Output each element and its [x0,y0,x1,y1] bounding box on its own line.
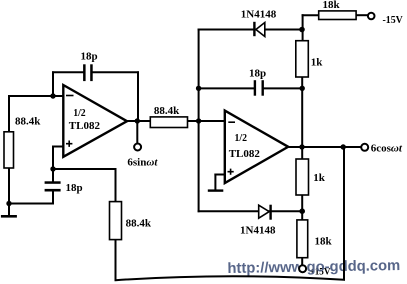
svg-text:18p: 18p [81,50,98,62]
svg-text:TL082: TL082 [229,148,261,160]
svg-text:88.4k: 88.4k [154,105,180,117]
svg-text:88.4k: 88.4k [15,116,41,128]
svg-text:1/2: 1/2 [73,107,86,119]
svg-text:1N4148: 1N4148 [241,9,277,21]
svg-text:88.4k: 88.4k [126,218,152,230]
svg-text:18k: 18k [323,0,341,11]
svg-text:-15V: -15V [383,14,403,26]
svg-text:http://www.go-gddq.com: http://www.go-gddq.com [227,258,400,277]
svg-text:1k: 1k [313,172,326,184]
svg-text:18p: 18p [66,182,83,194]
svg-text:1/2: 1/2 [235,132,248,144]
svg-text:1k: 1k [311,56,324,68]
svg-text:18p: 18p [249,67,266,79]
svg-text:6sinωt: 6sinωt [127,157,158,169]
svg-text:18k: 18k [315,236,333,248]
svg-text:6cosωt: 6cosωt [371,143,403,155]
svg-text:TL082: TL082 [69,120,101,132]
svg-text:1N4148: 1N4148 [240,224,276,236]
